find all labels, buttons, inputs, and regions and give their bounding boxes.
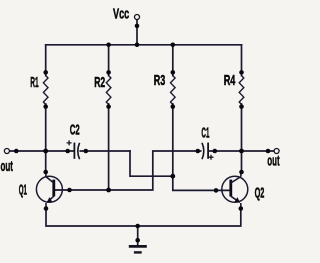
wire out-left to C2	[9, 150, 130, 152]
capacitor C1	[202, 143, 214, 160]
node C2 right	[84, 149, 89, 154]
svg-text:Q1: Q1	[19, 183, 28, 199]
wire Vcc drop	[136, 20, 138, 45]
node ground rail	[135, 224, 140, 229]
ground	[129, 246, 147, 252]
node rail R2	[106, 43, 111, 48]
node Q1 emitter	[44, 206, 49, 211]
svg-text:Vcc: Vcc	[113, 5, 129, 22]
node Q1 base	[67, 188, 72, 193]
node A left column junction	[43, 149, 48, 154]
node C2 left	[65, 149, 70, 154]
resistor R3	[171, 76, 176, 105]
node ground lead	[135, 238, 140, 243]
svg-text:R3: R3	[154, 72, 166, 89]
transistor Q2	[222, 172, 248, 209]
wire C1 to out-right	[209, 150, 274, 152]
node R3 C2 junction	[170, 174, 175, 179]
node R4 bottom	[239, 104, 244, 109]
terminal out left	[4, 149, 9, 154]
wire left column R1 branch	[45, 45, 47, 172]
node R3 top	[171, 70, 176, 75]
wire top rail	[46, 44, 242, 46]
node R1 bottom	[43, 104, 48, 109]
resistor R2	[106, 76, 111, 105]
svg-text:R4: R4	[224, 72, 236, 89]
wire R2 branch	[108, 45, 110, 190]
svg-text:Q2: Q2	[255, 184, 265, 202]
svg-text:out: out	[267, 152, 279, 169]
svg-text:R2: R2	[94, 73, 105, 90]
svg-text:out: out	[1, 157, 13, 174]
node Q1 collector	[43, 170, 48, 175]
node Q2 emitter	[239, 206, 244, 211]
wire Q1 base run	[54, 151, 201, 190]
junction + terminal dots	[14, 24, 270, 243]
node rail R3	[171, 43, 176, 48]
svg-text:C1: C1	[201, 126, 209, 142]
svg-text:R1: R1	[30, 75, 39, 91]
terminal Vcc	[135, 15, 140, 20]
node Vcc lead dot	[135, 24, 140, 29]
wire R3 branch	[173, 45, 231, 191]
terminal out right	[274, 149, 279, 154]
wire C2 staircase down	[130, 151, 173, 176]
node R2 bottom	[106, 104, 111, 109]
node rail Vcc	[135, 43, 140, 48]
transistor Q1	[36, 172, 62, 209]
node B right column junction	[239, 149, 244, 154]
wire bottom emitter rail	[46, 209, 241, 227]
ground stem	[137, 226, 139, 246]
resistor R4	[239, 76, 244, 105]
node C1 right	[213, 149, 218, 154]
node R2 base junction	[106, 188, 111, 193]
node Q2 base	[214, 188, 219, 193]
node C1 left	[196, 149, 201, 154]
wire R4 branch	[241, 45, 243, 172]
node R3 bottom	[171, 104, 176, 109]
svg-text:C2: C2	[70, 120, 80, 138]
node Q2 collector	[239, 170, 244, 175]
node R1 top	[43, 70, 48, 75]
node out-right lead	[266, 149, 271, 154]
node R4 top	[239, 70, 244, 75]
capacitor C2	[67, 140, 80, 159]
node R2 top	[106, 70, 111, 75]
node out-left lead	[14, 149, 19, 154]
resistor R1	[43, 76, 48, 105]
